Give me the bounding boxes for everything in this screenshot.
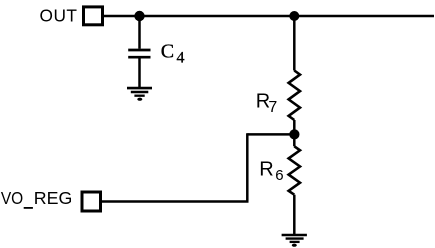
wire: R7 to mid junction xyxy=(293,120,296,135)
node VO_REG terminal square xyxy=(82,192,101,211)
svg-text:7: 7 xyxy=(268,99,277,116)
node OUT terminal square xyxy=(84,7,103,25)
ground under R6 xyxy=(282,235,307,247)
junction dot between R7 and R6 xyxy=(289,129,299,139)
wire: down from top rail to C4 xyxy=(138,16,141,49)
svg-text:REG: REG xyxy=(34,188,73,208)
wire: horizontal from VO_REG terminal xyxy=(102,200,249,203)
wire: R6 to ground xyxy=(293,195,296,235)
wire: C4 to ground xyxy=(138,58,141,88)
junction dot at divider tap on top rail xyxy=(289,11,299,21)
wire: down from top rail to R7 xyxy=(293,16,296,71)
junction dot at C4 tap xyxy=(134,11,144,21)
svg-text:OUT: OUT xyxy=(40,6,78,26)
svg-text:6: 6 xyxy=(275,167,283,184)
wire: mid junction left xyxy=(247,133,294,136)
svg-text:4: 4 xyxy=(177,50,185,67)
wire: mid junction down to R6 xyxy=(293,134,296,146)
ground under C4 xyxy=(127,88,152,101)
svg-text:R: R xyxy=(259,158,273,180)
wire: top rail from OUT terminal to right edge xyxy=(104,15,434,18)
resistor R6 zigzag xyxy=(289,146,300,194)
capacitor C4 plates xyxy=(128,49,150,52)
wire: corner vertical down xyxy=(246,133,249,201)
svg-text:VO: VO xyxy=(1,188,23,208)
resistor R7 zigzag xyxy=(289,71,300,121)
svg-text:C: C xyxy=(161,40,174,62)
